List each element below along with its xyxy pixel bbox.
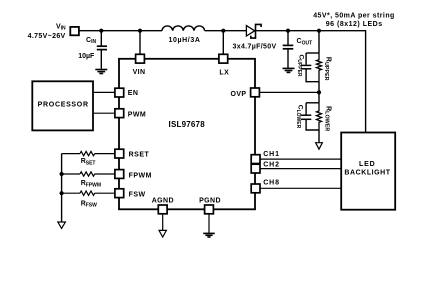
- label pin OVP: [231, 91, 247, 98]
- wire: CH2 to LED backlight: [260, 168, 341, 170]
- label RUPPER: [323, 57, 333, 81]
- pin CH2: [251, 164, 260, 173]
- pin PGND: [205, 205, 214, 214]
- wire: rail to LX pin: [222, 31, 224, 55]
- svg-text:CLOWER: CLOWER: [295, 105, 303, 129]
- ground (open triangle) for divider: [316, 143, 323, 150]
- resistor RSET: [62, 151, 115, 155]
- box PROCESSOR: [32, 81, 93, 130]
- node: junction rail/VIN pin: [138, 29, 142, 33]
- wire: AGND to ground: [162, 214, 164, 230]
- label pin EN: [128, 90, 139, 97]
- node: junction OVP/divider: [317, 82, 321, 103]
- node: bus/RFSW junction: [60, 191, 64, 195]
- pin LX: [219, 54, 228, 63]
- pin AGND: [158, 205, 167, 214]
- label pin CH8: [263, 179, 280, 186]
- pin CH1: [251, 155, 260, 164]
- label pin CH1: [263, 151, 280, 158]
- label RFPWM resistor: [81, 180, 101, 188]
- pin RSET: [115, 149, 124, 158]
- label pin PWM: [128, 111, 146, 118]
- capacitor CUPPER: [301, 53, 319, 82]
- wire: main rail from VIN terminal to inductor: [79, 30, 162, 32]
- pin VIN: [136, 54, 145, 63]
- label LED: [359, 161, 376, 168]
- wire: left resistor bus: [61, 154, 63, 222]
- svg-text:PWM: PWM: [128, 111, 146, 118]
- svg-text:ISL97678: ISL97678: [169, 120, 206, 129]
- svg-text:10µH/3A: 10µH/3A: [169, 37, 201, 44]
- wire: CH1 to LED backlight: [260, 158, 341, 160]
- pin OVP: [251, 88, 260, 97]
- svg-text:FSW: FSW: [129, 191, 146, 198]
- svg-text:96 (8x12) LEDs: 96 (8x12) LEDs: [326, 21, 383, 28]
- svg-text:FPWM: FPWM: [129, 172, 152, 179]
- resistor RFPWM: [62, 172, 115, 176]
- node: junction rail/OVP divider: [317, 29, 321, 33]
- wire: processor to EN: [93, 91, 115, 93]
- capacitor CLOWER: [301, 103, 319, 130]
- pin EN: [115, 88, 124, 97]
- label 3x4.7uF/50V: [232, 44, 276, 51]
- capacitor COUT: [283, 45, 294, 67]
- label 96 (8x12) LEDs: [326, 21, 383, 28]
- label VIN supply: [56, 23, 66, 31]
- ground (open triangle) for resistor bus: [58, 222, 66, 228]
- node: junction rail/COUT: [286, 29, 290, 33]
- inductor L1 10uH/3A: [162, 26, 205, 31]
- label CIN: [86, 37, 96, 45]
- label RLOWER: [323, 106, 333, 131]
- svg-text:CH8: CH8: [263, 179, 280, 186]
- svg-text:45V*, 50mA per string: 45V*, 50mA per string: [313, 13, 395, 20]
- wire: rail from inductor to diode anode: [205, 30, 247, 32]
- IC U1 ISL97678: [119, 59, 255, 210]
- svg-text:CUPPER: CUPPER: [296, 54, 304, 76]
- pin FSW: [115, 189, 124, 198]
- label RFSW resistor: [81, 200, 97, 208]
- svg-text:4.75V~26V: 4.75V~26V: [28, 33, 66, 40]
- pin FPWM: [115, 170, 124, 179]
- svg-text:AGND: AGND: [152, 197, 174, 204]
- label RSET resistor: [81, 158, 96, 166]
- svg-text:VIN: VIN: [133, 69, 146, 76]
- pin PWM: [115, 109, 124, 118]
- svg-text:3x4.7µF/50V: 3x4.7µF/50V: [232, 44, 276, 51]
- wire: OVP to divider: [259, 91, 319, 93]
- label pin AGND: [152, 197, 174, 204]
- label pin PGND: [199, 197, 221, 204]
- label BACKLIGHT: [344, 169, 390, 176]
- svg-text:CH1: CH1: [263, 151, 280, 158]
- label PROCESSOR: [38, 102, 89, 109]
- capacitor CIN: [97, 46, 107, 69]
- ground (earth) for CIN: [95, 70, 107, 74]
- box LED BACKLIGHT: [341, 133, 395, 210]
- label pin FPWM: [129, 172, 152, 179]
- label CUPPER: [296, 54, 304, 76]
- wire: processor to PWM: [93, 112, 115, 114]
- wire: COUT branch: [287, 31, 289, 45]
- svg-text:OVP: OVP: [231, 91, 247, 98]
- svg-text:RSET: RSET: [129, 151, 150, 158]
- ground (earth) for PGND: [203, 233, 215, 237]
- label 10uF: [78, 53, 95, 60]
- label 10uH/3A: [169, 37, 201, 44]
- svg-text:PROCESSOR: PROCESSOR: [38, 102, 89, 109]
- svg-text:LX: LX: [219, 70, 229, 77]
- label pin VIN: [133, 69, 146, 76]
- label ISL97678: [169, 120, 206, 129]
- wire: PGND to ground: [208, 214, 210, 233]
- node: junction rail/LX pin: [221, 29, 225, 33]
- label CLOWER: [295, 105, 303, 129]
- svg-text:CH2: CH2: [263, 161, 280, 168]
- svg-text:10µF: 10µF: [78, 53, 95, 60]
- node: junction rail/CIN: [99, 29, 103, 33]
- wire: rail to VIN pin: [139, 31, 141, 55]
- diode D1 schottky: [246, 24, 261, 38]
- resistor RFSW: [62, 191, 115, 195]
- wire: CH8 to LED backlight: [260, 187, 341, 189]
- label 45V, 50mA per string: [313, 13, 395, 20]
- svg-text:LED: LED: [359, 161, 376, 168]
- pin CH8: [251, 184, 260, 193]
- wire: divider branch from rail: [318, 31, 320, 53]
- label COUT: [297, 38, 313, 46]
- label pin CH2: [263, 161, 280, 168]
- label 4.75V~26V: [28, 33, 66, 40]
- svg-text:PGND: PGND: [199, 197, 221, 204]
- svg-text:BACKLIGHT: BACKLIGHT: [344, 169, 390, 176]
- label pin RSET: [129, 151, 150, 158]
- wire: CIN branch from rail: [100, 31, 102, 46]
- wire: divider to ground: [318, 130, 320, 142]
- resistor RUPPER: [317, 53, 322, 82]
- label pin FSW: [129, 191, 146, 198]
- terminal VIN input: [70, 27, 79, 35]
- resistor RLOWER: [317, 103, 322, 130]
- node: bus/RFPWM junction: [60, 172, 64, 176]
- wire: rail from diode cathode to LED backlight, turning down: [256, 31, 365, 133]
- ground (open triangle) for AGND: [159, 230, 166, 237]
- svg-text:EN: EN: [128, 90, 139, 97]
- label pin LX: [219, 70, 229, 77]
- ground (earth) for COUT: [283, 68, 295, 72]
